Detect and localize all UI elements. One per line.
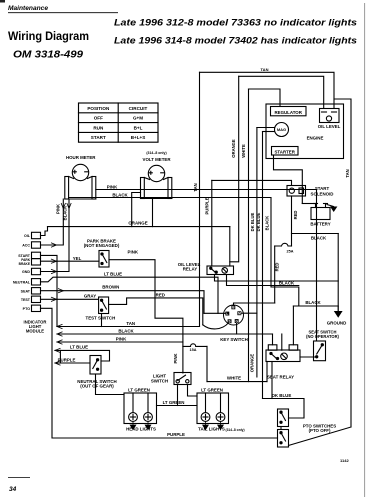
wire black from hour meter <box>69 198 299 307</box>
position/circuit table <box>79 103 159 142</box>
svg-text:BRAKE: BRAKE <box>19 262 30 266</box>
svg-text:TAIL LIGHTS: TAIL LIGHTS <box>198 426 225 431</box>
chevron connectors <box>51 203 71 365</box>
wire pto pin to purple bus <box>41 308 278 438</box>
svg-text:START: START <box>91 135 106 140</box>
wire orange top <box>239 76 324 108</box>
svg-text:PURPLE: PURPLE <box>58 357 76 362</box>
wire TAN top <box>200 72 335 108</box>
svg-text:TAN: TAN <box>345 169 350 177</box>
wire lt blue bottom <box>55 350 110 361</box>
wire orange bus <box>48 226 230 228</box>
wire TAN left vertical <box>199 72 201 326</box>
wire dk blue 1 vertical <box>256 128 258 378</box>
wire key bottom white vertical <box>206 346 208 381</box>
svg-text:L: L <box>226 312 228 316</box>
svg-text:PURPLE: PURPLE <box>167 432 185 437</box>
svg-text:BLACK: BLACK <box>112 192 128 197</box>
rotated wire labels <box>56 139 350 372</box>
svg-text:34: 34 <box>9 486 17 493</box>
svg-text:BLACK: BLACK <box>63 206 68 221</box>
header rule <box>8 12 118 14</box>
svg-text:LT BLUE: LT BLUE <box>70 345 88 350</box>
indicator light module pins <box>32 232 41 311</box>
wire orange vertical <box>230 76 239 261</box>
wire ground vertical <box>337 234 339 312</box>
wire oil pin to orange <box>41 227 48 236</box>
start solenoid <box>287 186 306 197</box>
light switch <box>174 373 191 385</box>
svg-text:RED: RED <box>156 292 165 297</box>
svg-text:OFF: OFF <box>94 116 103 121</box>
wire solenoid to battery <box>302 203 315 205</box>
wire white vertical <box>248 89 250 382</box>
wire to key L <box>204 312 225 314</box>
wire pto switches link <box>280 427 282 430</box>
wire red dip to key S <box>203 323 229 329</box>
svg-text:(OUT OF GEAR): (OUT OF GEAR) <box>80 384 114 389</box>
svg-text:S: S <box>229 320 231 324</box>
module pin labels <box>13 234 31 311</box>
svg-text:(314–8 only): (314–8 only) <box>226 428 245 432</box>
svg-text:MODULE: MODULE <box>26 329 44 334</box>
svg-text:OIL LEVEL: OIL LEVEL <box>318 124 341 129</box>
page edge line <box>364 3 366 497</box>
test switch <box>99 297 109 314</box>
svg-text:(NO OPERATOR): (NO OPERATOR) <box>306 334 339 339</box>
wire white to regulator <box>249 89 281 107</box>
wire neutral switch to head lights <box>96 374 125 395</box>
svg-text:ORANGE: ORANGE <box>231 139 236 158</box>
volt meter lead left <box>132 193 141 227</box>
wire pink park brake <box>109 260 183 342</box>
module name <box>24 319 47 333</box>
svg-text:G+M: G+M <box>133 116 143 121</box>
svg-text:BLACK: BLACK <box>265 216 270 231</box>
oil level sensor <box>320 109 340 123</box>
wire relay center feeder <box>281 334 283 350</box>
head lights <box>124 393 157 424</box>
svg-text:RUN: RUN <box>93 125 104 130</box>
wire seat switch to relay <box>300 356 316 358</box>
seat switch <box>314 341 326 361</box>
svg-text:WHITE: WHITE <box>227 376 241 381</box>
svg-text:TAN: TAN <box>126 321 135 326</box>
svg-text:RED: RED <box>293 211 298 220</box>
svg-text:NEUTRAL: NEUTRAL <box>13 280 31 284</box>
wire seat relay tab2 up <box>292 306 294 345</box>
wire black band <box>57 333 273 335</box>
svg-text:PINK: PINK <box>128 250 139 255</box>
wire mag lead 2 <box>263 131 275 133</box>
svg-text:OM 3318-499: OM 3318-499 <box>13 50 83 61</box>
svg-text:GRAY: GRAY <box>84 294 96 299</box>
wire TAN diagonal to PTO <box>289 427 352 446</box>
wire start pin <box>41 255 58 326</box>
hour meter <box>65 164 96 199</box>
svg-text:WHITE: WHITE <box>241 144 246 158</box>
svg-text:MAG: MAG <box>277 127 286 132</box>
head light ground arrows <box>130 421 223 429</box>
svg-text:ENGINE: ENGINE <box>307 136 324 141</box>
volt meter lead right <box>152 199 154 227</box>
svg-text:SEAT RELAY: SEAT RELAY <box>267 374 294 379</box>
svg-text:B+L: B+L <box>134 125 143 130</box>
svg-text:(PTO OFF): (PTO OFF) <box>309 428 331 433</box>
oil level relay <box>207 266 234 275</box>
wire purple vertical <box>211 180 213 266</box>
wire mag lead 1 <box>257 127 275 129</box>
pto switch 2 <box>278 430 289 448</box>
svg-text:LT GREEN: LT GREEN <box>163 400 185 405</box>
seat relay <box>266 345 300 362</box>
wire dk blue 2 vertical <box>262 132 264 399</box>
svg-text:GROUND: GROUND <box>327 321 347 326</box>
wire red fuse vertical <box>274 246 276 303</box>
wire lt green link <box>157 405 198 407</box>
wire orange to relay <box>229 227 231 266</box>
pto switch 1 <box>278 409 289 427</box>
wire key B to fuse <box>234 303 275 305</box>
wire key M to seat relay <box>241 312 257 314</box>
svg-text:PINK: PINK <box>56 204 61 214</box>
wire pink meter vertical <box>41 199 64 245</box>
wire test switch bottom <box>101 314 103 327</box>
wire seat relay coil down <box>271 362 273 399</box>
wire black to tab1 <box>272 334 274 345</box>
wire TAN branch to right side <box>334 99 351 427</box>
battery <box>311 204 330 220</box>
park brake switch <box>99 251 109 268</box>
wire oil relay out 1 <box>215 275 339 282</box>
magneto MAG <box>275 123 289 137</box>
fuse 15A <box>183 344 207 347</box>
wire black meter vertical <box>41 199 70 272</box>
svg-text:ORANGE: ORANGE <box>128 221 147 226</box>
wire pink from hour meter <box>96 190 317 342</box>
svg-text:PINK: PINK <box>173 353 178 363</box>
neutral switch <box>90 356 101 375</box>
wire oil relay out 2 <box>227 275 299 286</box>
tail lights <box>197 393 229 424</box>
wire black to ground <box>293 305 338 307</box>
wire black battery <box>292 233 339 235</box>
svg-text:HEAD LIGHTS: HEAD LIGHTS <box>126 426 156 431</box>
wire white bottom <box>207 381 267 383</box>
svg-text:25A: 25A <box>287 249 294 253</box>
svg-text:PURPLE: PURPLE <box>205 197 210 214</box>
svg-text:PTO: PTO <box>23 307 31 311</box>
svg-text:START: START <box>315 186 330 191</box>
fuse 25A <box>275 243 292 246</box>
wire purple to solenoid <box>212 180 292 185</box>
svg-text:CIRCUIT: CIRCUIT <box>129 106 148 111</box>
wire light switch left down <box>177 385 179 406</box>
wire key G down <box>236 323 238 334</box>
svg-text:SOLENOID: SOLENOID <box>311 191 334 196</box>
svg-text:SEAT: SEAT <box>21 289 31 293</box>
svg-text:STARTER: STARTER <box>274 149 295 154</box>
svg-text:RELAY: RELAY <box>183 267 198 272</box>
schematic labels horizontal <box>58 67 347 437</box>
svg-text:Late 1996 312-8 model 73363 no: Late 1996 312-8 model 73363 no indicator… <box>114 18 357 28</box>
regulator U2 <box>271 107 307 116</box>
wire red from test switch <box>109 298 203 325</box>
svg-text:VOLT METER: VOLT METER <box>143 157 172 162</box>
svg-text:Late 1996 314-8 model 73402 h: Late 1996 314-8 model 73402 has indicato… <box>114 36 357 46</box>
starter <box>272 147 299 156</box>
svg-text:BLACK: BLACK <box>305 300 321 305</box>
wire purple neutral <box>55 362 90 364</box>
svg-text:BLACK: BLACK <box>118 329 134 334</box>
svg-text:1142: 1142 <box>340 458 349 463</box>
svg-text:TAN: TAN <box>193 183 198 191</box>
wire starter to solenoid <box>274 155 303 204</box>
svg-text:B+L+S: B+L+S <box>131 135 146 140</box>
volt meter <box>141 165 172 198</box>
svg-text:OIL: OIL <box>24 234 31 238</box>
battery ground symbol <box>330 207 337 213</box>
svg-text:15A: 15A <box>190 348 197 352</box>
svg-text:TAN: TAN <box>261 67 269 72</box>
key switch <box>224 305 244 325</box>
svg-text:(NOT ENGAGED): (NOT ENGAGED) <box>84 243 120 248</box>
svg-text:LT GREEN: LT GREEN <box>201 388 223 393</box>
wire gray <box>41 298 99 300</box>
svg-text:(314–8 only): (314–8 only) <box>146 151 166 155</box>
svg-text:ORANGE: ORANGE <box>249 354 254 373</box>
wire lt blue <box>41 277 219 313</box>
svg-text:BLACK: BLACK <box>279 280 295 285</box>
svg-text:BLACK: BLACK <box>311 236 327 241</box>
svg-text:REGULATOR: REGULATOR <box>274 110 302 115</box>
svg-text:DK BLUE: DK BLUE <box>272 393 292 398</box>
wire yel <box>41 260 100 262</box>
wire lt blue purple link <box>59 350 61 363</box>
svg-text:M: M <box>238 312 241 316</box>
svg-text:TEST SWITCH: TEST SWITCH <box>86 316 116 321</box>
svg-text:ACC: ACC <box>22 244 30 248</box>
wire dk blue bottom <box>263 399 305 419</box>
wire brown <box>41 291 205 314</box>
svg-text:DK BLUE: DK BLUE <box>250 212 255 231</box>
svg-text:GND: GND <box>22 270 30 274</box>
wire pink band <box>57 342 183 373</box>
corner mark <box>0 0 5 3</box>
svg-text:POSITION: POSITION <box>87 106 110 111</box>
engine box <box>266 104 344 159</box>
footer rule <box>8 477 30 479</box>
svg-text:BROWN: BROWN <box>102 285 119 290</box>
svg-text:TEST: TEST <box>21 298 31 302</box>
svg-text:RED: RED <box>274 263 279 272</box>
svg-text:KEY SWITCH: KEY SWITCH <box>220 337 247 342</box>
svg-text:YEL: YEL <box>73 256 82 261</box>
svg-text:LT BLUE: LT BLUE <box>104 272 122 277</box>
wire light switch right down <box>188 385 198 397</box>
wire red solenoid down <box>291 196 293 246</box>
battery ground lead <box>327 205 334 207</box>
svg-text:HOUR METER: HOUR METER <box>66 155 96 160</box>
svg-text:Maintenance: Maintenance <box>8 5 49 12</box>
svg-text:PINK: PINK <box>116 336 127 341</box>
svg-text:LT GREEN: LT GREEN <box>128 388 150 393</box>
svg-text:DK BLUE: DK BLUE <box>256 212 261 231</box>
wire seat relay left bottom <box>266 362 268 382</box>
wire TAN band horizontal <box>57 326 200 328</box>
svg-text:Wiring Diagram: Wiring Diagram <box>8 29 89 43</box>
svg-text:BATTERY: BATTERY <box>310 222 330 227</box>
svg-text:SWITCH: SWITCH <box>151 378 168 383</box>
svg-text:PINK: PINK <box>107 184 118 189</box>
ground symbol main <box>334 306 343 318</box>
